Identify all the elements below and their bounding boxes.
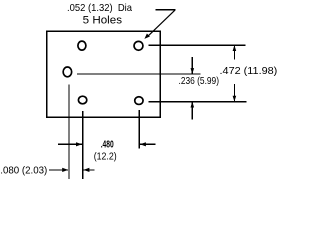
dimension .480 (12.2) arrows	[58, 140, 155, 163]
dimension .236 (5.99) arrows	[179, 57, 220, 119]
.236 dimension upper arrow (points down at middle line)	[191, 57, 193, 74]
svg-text:.480: .480	[101, 140, 114, 151]
hole bottom-left	[78, 96, 86, 104]
svg-text:.236 (5.99): .236 (5.99)	[179, 76, 220, 87]
extension line right of bottom-right hole	[149, 101, 247, 103]
.080 dimension left arrow (points right)	[49, 169, 68, 171]
label .052 (1.32) Dia 5 Holes	[67, 3, 132, 26]
svg-text:.052 (1.32) Dia: .052 (1.32) Dia	[67, 3, 132, 14]
extension line right of top-right hole	[149, 44, 246, 46]
extension line right of middle-left hole	[77, 73, 200, 75]
svg-text:.080 (2.03): .080 (2.03)	[0, 165, 47, 176]
svg-text:(12.2): (12.2)	[94, 152, 117, 163]
leader horizontal segment	[156, 9, 176, 11]
hole bottom-right	[135, 97, 143, 105]
.236 dimension lower arrow (points up at bottom line)	[191, 102, 193, 120]
leader diagonal segment	[148, 10, 175, 36]
component outline (5-hole pattern body)	[47, 31, 161, 117]
hole middle-left	[63, 67, 72, 77]
hole top-right	[134, 41, 143, 50]
.080 dimension right arrow (points left)	[83, 169, 94, 171]
.480 dimension left arrow (points right)	[58, 143, 82, 145]
.472 dimension upper arrow (points up)	[233, 45, 235, 59]
svg-text:5 Holes: 5 Holes	[83, 14, 123, 26]
hole top-left	[78, 41, 86, 50]
leader from label to top-right hole	[144, 10, 175, 39]
extension line down from middle-left hole	[68, 84, 70, 179]
dimension .080 (2.03) arrows	[0, 165, 94, 176]
dimension .472 (11.98) vertical	[220, 45, 278, 102]
svg-text:.472 (11.98): .472 (11.98)	[220, 66, 278, 77]
extension line down from bottom-left hole	[82, 111, 84, 179]
extension line down from bottom-right hole	[138, 110, 140, 148]
.480 dimension right arrow (points left)	[140, 143, 156, 145]
leader arrowhead	[144, 34, 150, 39]
.472 dimension lower arrow (points down)	[233, 84, 235, 102]
